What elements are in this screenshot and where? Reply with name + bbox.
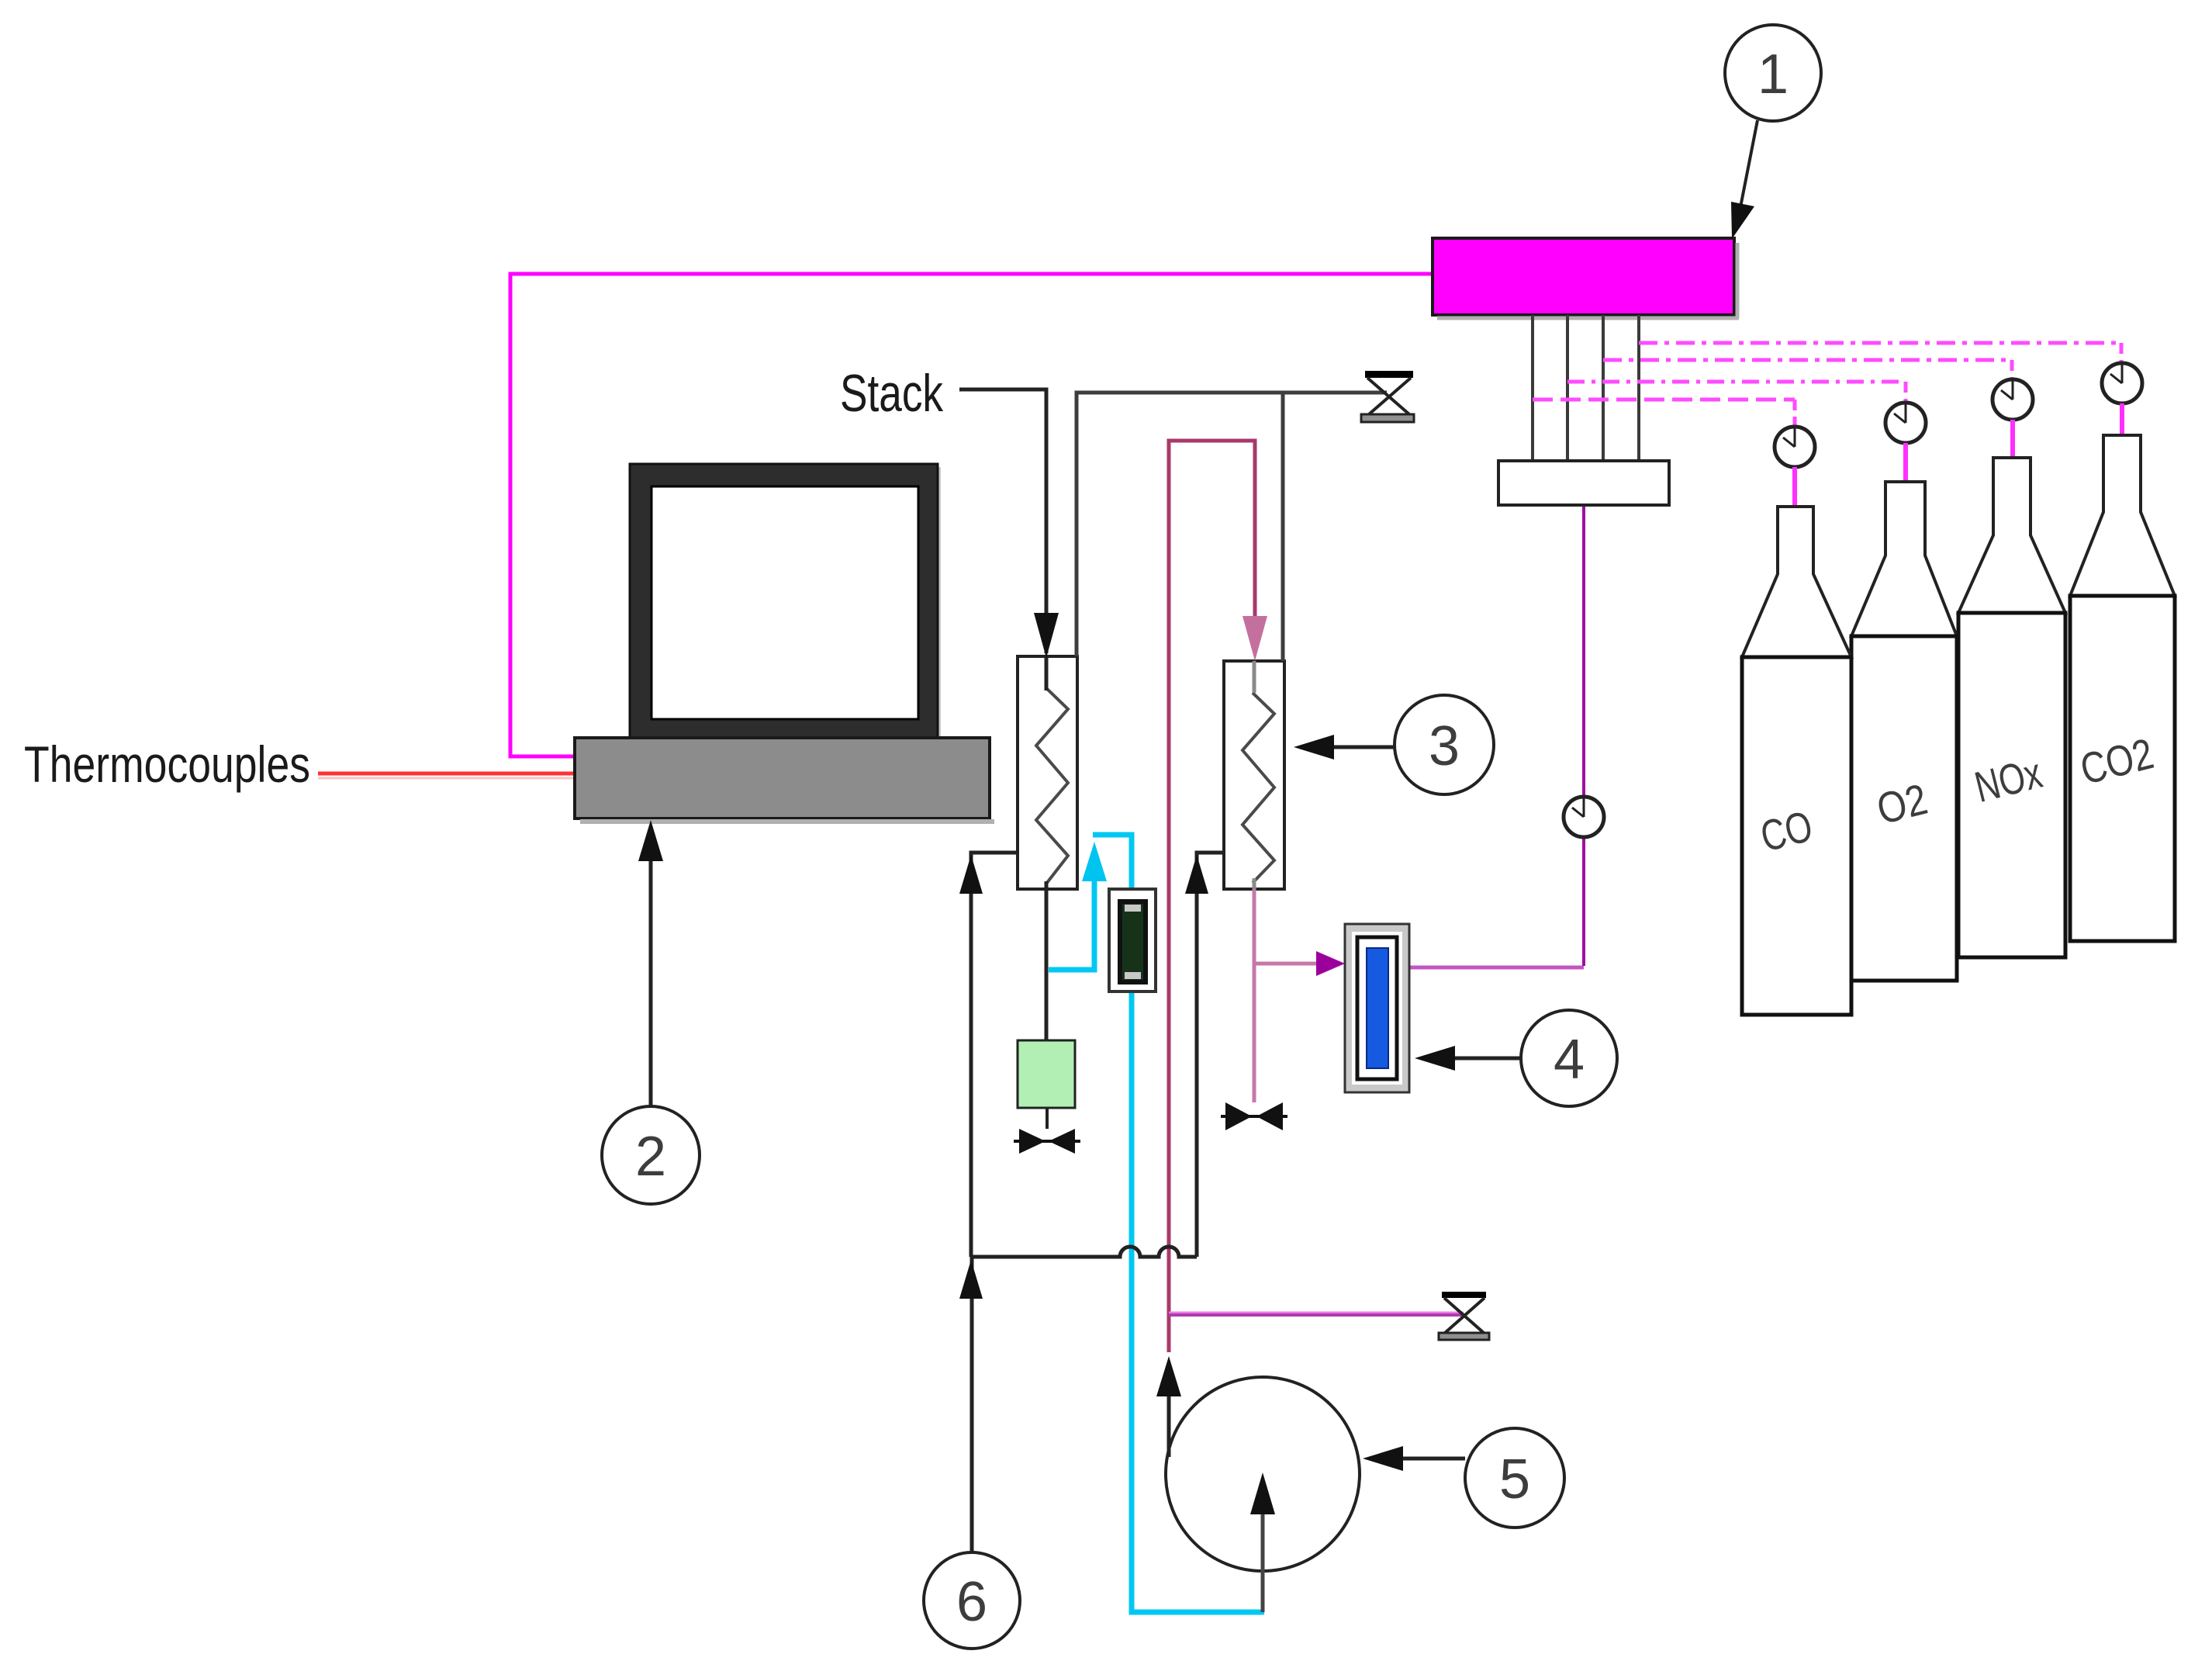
svg-text:4: 4: [1554, 1029, 1585, 1091]
gas cylinder CO: [1742, 507, 1851, 1015]
drain valve V2 below column C2 (closed bowtie): [1221, 1102, 1287, 1130]
laptop computer (item 2): [575, 464, 994, 822]
callout circle 6 on gas supply line: [924, 1552, 1020, 1649]
wire: red thermocouple line: [318, 773, 579, 778]
wire: magenta connector from O2 regulator to cylinder: [1903, 443, 1908, 482]
gauge on analyzer sample line: [1564, 797, 1604, 837]
wire: mauve drain line from pump tee to vent valve: [1169, 1313, 1464, 1315]
analyzer manifold base: [1498, 461, 1669, 505]
wire: magenta data line from analyzer to laptop: [510, 274, 1434, 756]
wire: supply line riser from circle 6 junction to column C1 inlet: [971, 853, 1018, 1257]
wire: vent header from column C1 to vent valve: [1077, 393, 1387, 656]
wire: stack inlet line to condenser column C1: [959, 389, 1046, 653]
wire: bottom supply header with pipe hops over cyan and crimson lines: [971, 1247, 1197, 1257]
analyzer legs: [1533, 315, 1639, 462]
pressure regulator on NOx cylinder: [1993, 379, 2033, 420]
wire: sample line inside column C2: [1253, 661, 1256, 889]
dash-dot calibration gas line to CO2 regulator: [1639, 343, 2121, 362]
wire: plum sample line below column C2 to drain valve: [1253, 889, 1256, 1102]
gas cylinder CO2: [2070, 435, 2175, 941]
label Thermocouples: [24, 735, 310, 793]
pressure regulator on CO cylinder: [1775, 427, 1815, 467]
callout circle 3 with arrow to column C2: [1294, 695, 1494, 794]
svg-text:5: 5: [1499, 1448, 1530, 1510]
gas analyzer (item 1) magenta unit: [1433, 238, 1739, 318]
pressure regulator on CO2 cylinder: [2102, 363, 2142, 403]
svg-text:6: 6: [956, 1571, 987, 1633]
wire: vent riser from column C2: [1281, 393, 1285, 661]
svg-text:Stack: Stack: [840, 364, 944, 423]
flow sensor on cooling water line: [1109, 889, 1156, 991]
pump (item 5): [1166, 1377, 1360, 1571]
wire: cyan cooling water loop: [1049, 835, 1264, 1612]
wire: magenta connector from CO regulator to cylinder: [1792, 467, 1797, 507]
wire: magenta connector from CO2 regulator to cylinder: [2120, 403, 2124, 435]
wire: pump outlet riser: [1167, 1362, 1171, 1457]
arrow: gas up from circle 6 line: [959, 1260, 983, 1299]
arrow: flow up into pump: [1250, 1472, 1275, 1514]
gas cylinder O2: [1851, 482, 1957, 981]
drain valve V3 below green box (closed bowtie): [1014, 1129, 1080, 1154]
wire: purple line from cell 4 to analyzer manifold: [1409, 507, 1584, 967]
wire: sample line through column C1 down to filter: [1045, 656, 1049, 1040]
callout circle 2 with arrow to laptop: [602, 820, 700, 1204]
filter/scrubber green box below column C1: [1018, 1040, 1075, 1129]
arrow: cooling water up (cyan): [1082, 842, 1107, 881]
wire: crimson heated sample line from pump up and over into column C2: [1169, 441, 1255, 1352]
callout circle 1 with arrow to analyzer: [1725, 25, 1821, 239]
label Stack: [840, 364, 944, 423]
svg-text:3: 3: [1429, 715, 1460, 777]
gas measurement cell (item 4): [1345, 924, 1409, 1092]
wire: line from circle 6 up to junction: [970, 1257, 974, 1552]
arrow: flue gas down into column C1: [1034, 613, 1059, 658]
pressure regulator on O2 cylinder: [1885, 403, 1926, 443]
callout circle 4 with arrow to measurement cell: [1415, 1010, 1617, 1106]
wire: pump inlet from cooling loop: [1261, 1502, 1265, 1612]
wire: plum branch to measurement cell: [1254, 962, 1319, 966]
arrow: sample flow into column C2: [1243, 616, 1267, 661]
dash-dot calibration gas line to O2 regulator: [1567, 382, 1906, 401]
arrow: gas up into column C2 inlet: [1185, 855, 1208, 894]
svg-text:Thermocouples: Thermocouples: [24, 735, 310, 793]
condenser column C1: [1018, 656, 1077, 889]
wire: magenta connector from NOx regulator to cylinder: [2010, 420, 2015, 458]
condenser column C2 (item 3): [1224, 661, 1284, 889]
dash-dot calibration gas line to NOx regulator: [1603, 360, 2012, 378]
wire: supply riser to column C2 inlet: [1197, 853, 1224, 1257]
vent valve V1 at stack header (hourglass): [1361, 371, 1414, 422]
vent valve V4 on mauve drain line (hourglass): [1439, 1292, 1489, 1340]
callout circle 5 with arrow to pump: [1363, 1428, 1564, 1528]
arrow: gas up into column C1 inlet: [959, 855, 983, 894]
arrow: pump outlet flow up: [1156, 1356, 1181, 1396]
svg-text:2: 2: [635, 1126, 666, 1188]
svg-text:1: 1: [1758, 43, 1789, 106]
arrow: sample into measurement cell 4: [1316, 951, 1345, 976]
gas cylinder NOx: [1958, 458, 2065, 957]
dashed calibration gas line to CO regulator: [1533, 400, 1795, 425]
